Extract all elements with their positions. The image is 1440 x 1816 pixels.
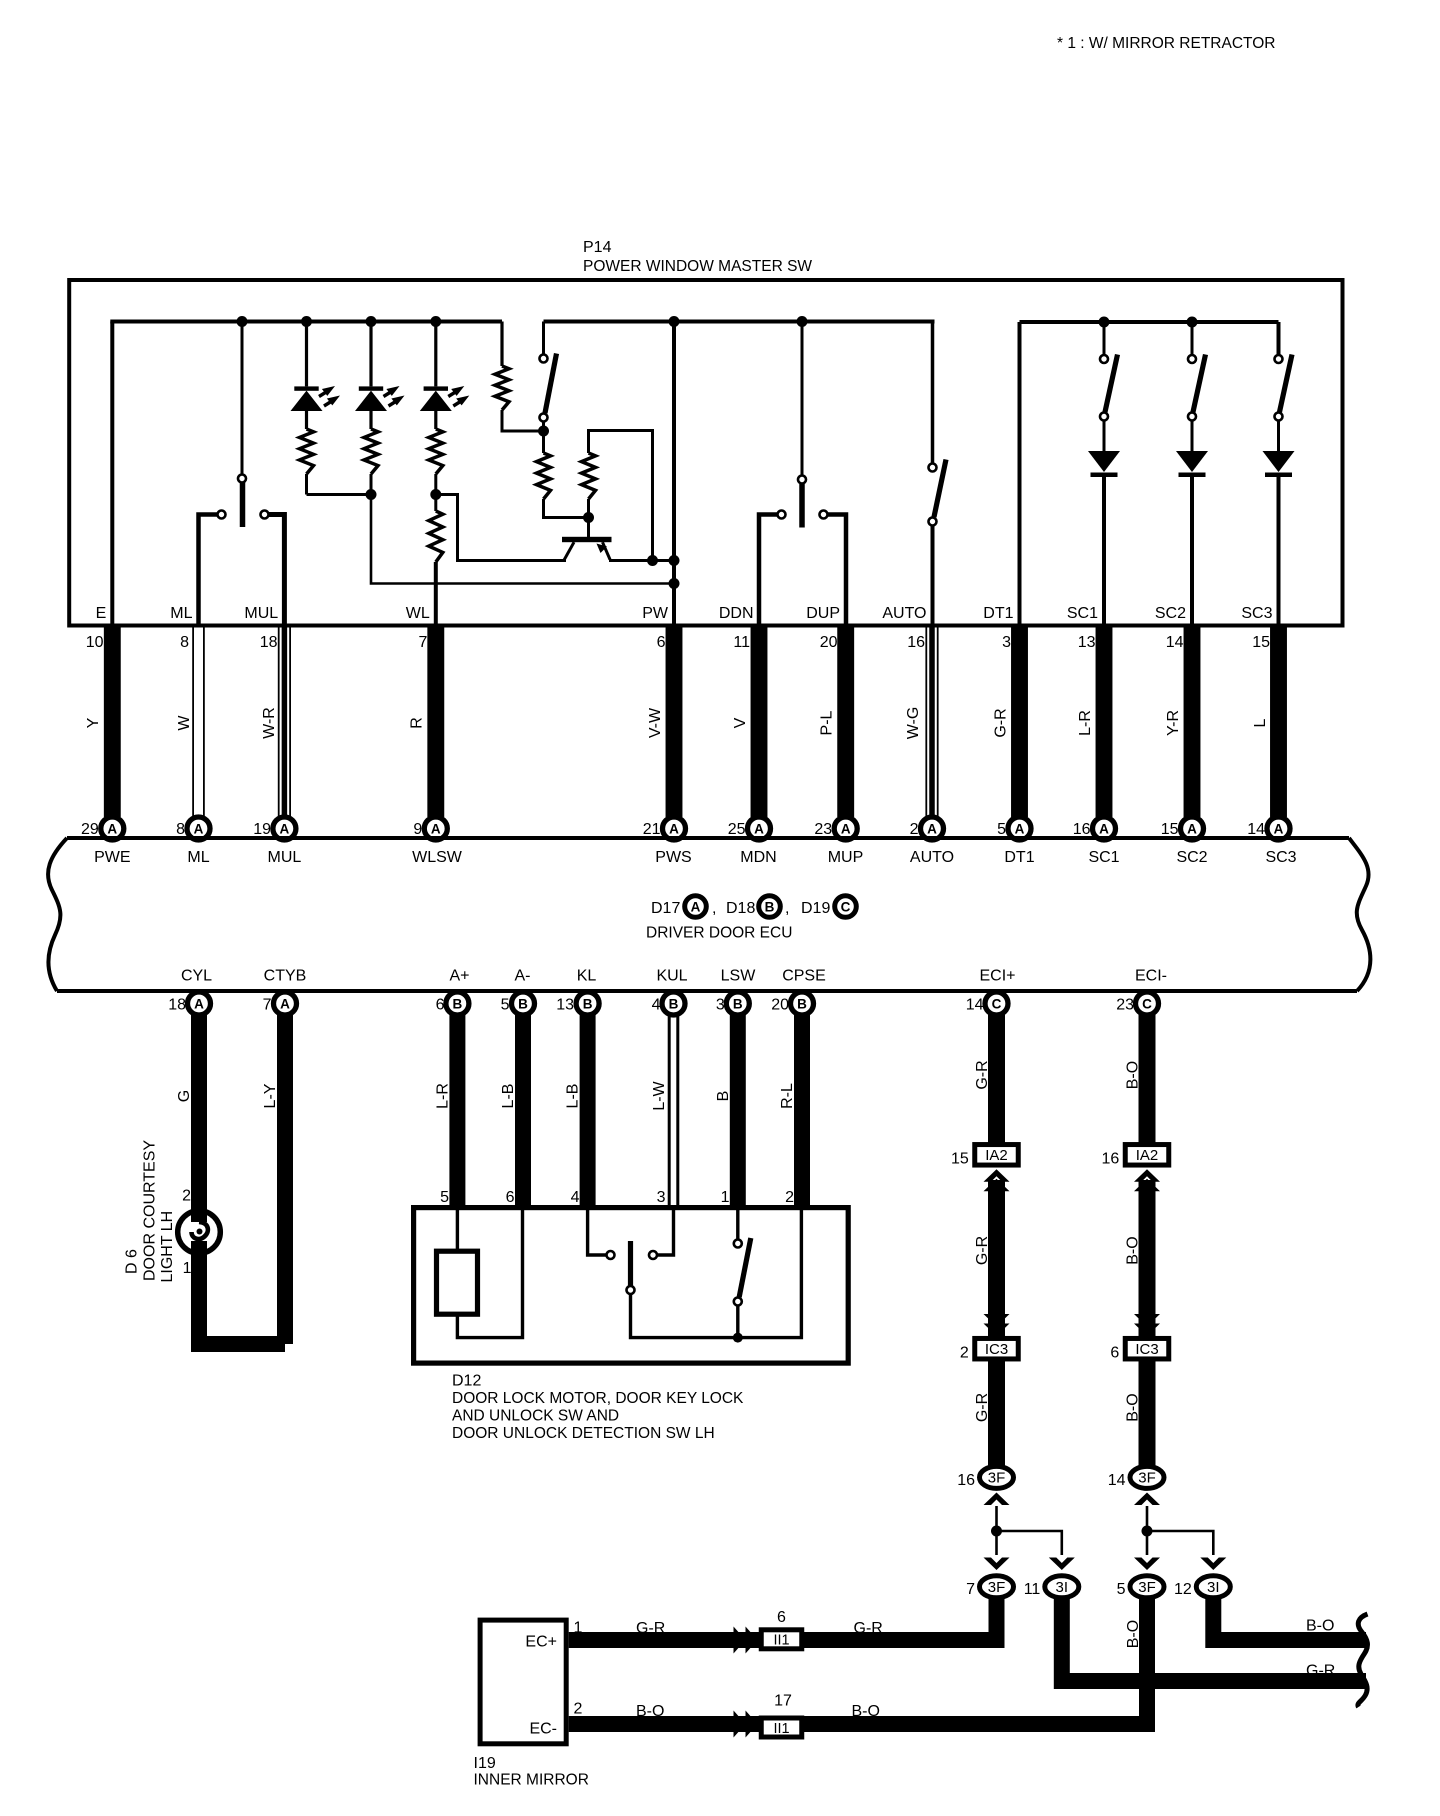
- wire harness MUP thick: [837, 624, 854, 817]
- svg-text:SC2: SC2: [1155, 605, 1186, 622]
- connector IC3 pin 2: [960, 1338, 1018, 1361]
- svg-text:DT1: DT1: [983, 605, 1013, 622]
- svg-text:CYL: CYL: [181, 968, 212, 985]
- svg-text:P14: P14: [583, 239, 612, 256]
- svg-text:ML: ML: [170, 605, 192, 622]
- node PW net junction 2: [669, 578, 680, 589]
- wire segment 2: [1139, 1180, 1156, 1340]
- svg-text:7: 7: [966, 1581, 975, 1598]
- wire LED junction to PW net: [371, 495, 674, 584]
- wire bus A (E to resistor): [110, 320, 502, 324]
- node bus junction ML: [237, 316, 248, 327]
- diode D_SC1: [1088, 451, 1120, 472]
- svg-text:B: B: [518, 996, 528, 1011]
- wire segment 2: [988, 1180, 1005, 1340]
- svg-text:2: 2: [910, 821, 919, 838]
- svg-text:B-O: B-O: [1125, 1393, 1142, 1421]
- svg-text:B: B: [453, 996, 463, 1011]
- svg-text:ECI-: ECI-: [1135, 968, 1167, 985]
- wire branch to 3I: [1147, 1531, 1213, 1555]
- wire harness LSW thick: [730, 1014, 746, 1209]
- svg-text:C: C: [1142, 996, 1152, 1011]
- connector arrow up: [1134, 1493, 1160, 1506]
- wire motor to A-: [457, 1210, 522, 1338]
- label D12 text block: [452, 1373, 744, 1443]
- switch AUTO: [929, 322, 947, 626]
- LED D2 illumination: [355, 322, 405, 430]
- wire 3F5 to inner mirror EC-: [569, 1598, 1147, 1724]
- wire harness ML hollow: [193, 628, 204, 818]
- svg-text:18: 18: [168, 997, 186, 1014]
- wire SC3 leg: [1277, 477, 1281, 625]
- wire color labels top harness: [85, 707, 1269, 740]
- svg-text:B-O: B-O: [636, 1703, 664, 1720]
- svg-text:CPSE: CPSE: [782, 968, 826, 985]
- wire 3I12 to B-O continuation: [1213, 1598, 1366, 1640]
- wire DT1 leg: [1018, 322, 1022, 625]
- svg-text:PW: PW: [642, 605, 669, 622]
- svg-text:11: 11: [1024, 1581, 1041, 1598]
- svg-text:14: 14: [1247, 821, 1265, 838]
- svg-text:G-R: G-R: [993, 708, 1010, 737]
- wire harness PWS thick: [666, 624, 683, 817]
- wire 3F7 to inner mirror EC+: [569, 1598, 997, 1640]
- wire segment 3: [1139, 1359, 1156, 1477]
- svg-text:AUTO: AUTO: [882, 605, 926, 622]
- switch ML/MUL mirror select: [218, 322, 269, 528]
- lamp D6 door courtesy light LH: [178, 1014, 221, 1253]
- switch SC2: [1188, 322, 1206, 451]
- connector arrows right EC-: [734, 1711, 758, 1738]
- svg-text:ECI+: ECI+: [979, 968, 1015, 985]
- wire color labels lower harness: [176, 1080, 796, 1110]
- component box P14 power window master switch: [69, 280, 1342, 626]
- switch SC3: [1275, 322, 1293, 451]
- svg-text:V-W: V-W: [647, 707, 664, 738]
- svg-text:A: A: [194, 821, 204, 836]
- svg-text:18: 18: [260, 634, 278, 651]
- svg-text:4: 4: [652, 997, 661, 1014]
- pin numbers connector row A: [81, 821, 1265, 838]
- svg-text:MUL: MUL: [268, 849, 302, 866]
- svg-text:A: A: [1187, 821, 1197, 836]
- svg-text:16: 16: [1102, 1151, 1120, 1168]
- svg-text:W-R: W-R: [261, 707, 278, 739]
- connector arrow down: [1134, 1558, 1160, 1571]
- svg-text:AND UNLOCK SW AND: AND UNLOCK SW AND: [452, 1408, 619, 1425]
- ECU band torn left edge: [48, 838, 67, 991]
- resistor R_LED2: [364, 429, 378, 474]
- svg-text:PWE: PWE: [94, 849, 130, 866]
- svg-text:B: B: [669, 996, 679, 1011]
- wire harness MDN thick: [751, 624, 768, 817]
- svg-text:16: 16: [957, 1472, 975, 1489]
- wire SC1 leg: [1102, 477, 1106, 625]
- svg-text:6: 6: [777, 1609, 786, 1626]
- connector pins B/C row circles: [188, 992, 1159, 1015]
- svg-text:MUP: MUP: [828, 849, 864, 866]
- svg-text:A+: A+: [449, 968, 469, 985]
- connector arrows up: [1134, 1169, 1160, 1191]
- wire A+ to motor: [456, 1210, 459, 1251]
- svg-text:IC3: IC3: [985, 1341, 1008, 1358]
- svg-text:21: 21: [643, 821, 661, 838]
- svg-text:29: 29: [81, 821, 99, 838]
- wire DUP contact to pin: [828, 515, 846, 626]
- svg-text:G-R: G-R: [974, 1236, 991, 1265]
- svg-text:A: A: [431, 821, 441, 836]
- svg-text:20: 20: [820, 634, 838, 651]
- svg-text:,: ,: [785, 900, 789, 917]
- svg-text:B: B: [765, 899, 775, 914]
- svg-text:B: B: [583, 996, 593, 1011]
- svg-text:6: 6: [506, 1189, 515, 1206]
- svg-text:6: 6: [1110, 1345, 1119, 1362]
- wire ML contact to pin: [199, 515, 218, 626]
- svg-text:G-R: G-R: [636, 1620, 665, 1637]
- svg-text:A: A: [1274, 821, 1284, 836]
- connector pins A row circles: [101, 817, 1290, 840]
- label P14 POWER WINDOW MASTER SW: [583, 239, 812, 275]
- svg-text:L-B: L-B: [500, 1084, 517, 1109]
- wire harness WLSW thick: [427, 624, 444, 817]
- svg-text:P-L: P-L: [819, 710, 836, 735]
- switch SC1: [1100, 322, 1118, 451]
- connector arrows down: [984, 1314, 1010, 1336]
- svg-text:DOOR COURTESY: DOOR COURTESY: [142, 1140, 159, 1281]
- wire harness SC1 thick: [1096, 624, 1113, 817]
- svg-text:A: A: [927, 821, 937, 836]
- svg-text:3F: 3F: [1138, 1579, 1156, 1596]
- svg-text:B-O: B-O: [852, 1703, 880, 1720]
- switch SW-PW key-off window operation: [540, 322, 557, 432]
- svg-text:5: 5: [997, 821, 1006, 838]
- svg-text:AUTO: AUTO: [910, 849, 954, 866]
- svg-text:D18: D18: [726, 900, 755, 917]
- svg-text:3I: 3I: [1207, 1579, 1220, 1596]
- connector IA2 pin 15: [951, 1145, 1018, 1168]
- wire SC2 leg: [1190, 477, 1194, 625]
- wire harness SC2 thick: [1184, 624, 1201, 817]
- connector II1 pin 6: [761, 1609, 802, 1649]
- wire common to CPSE: [738, 1210, 802, 1338]
- node bus junction SC1: [1099, 317, 1110, 328]
- resistor R3 base-emitter: [582, 431, 653, 561]
- ECU band torn right edge: [1349, 838, 1370, 991]
- svg-text:3: 3: [657, 1189, 666, 1206]
- svg-text:A: A: [194, 996, 204, 1011]
- svg-text:LIGHT LH: LIGHT LH: [159, 1211, 176, 1283]
- svg-text:B-O: B-O: [1125, 1620, 1142, 1648]
- node base junction: [583, 512, 594, 523]
- svg-text:1: 1: [721, 1189, 730, 1206]
- svg-text:WL: WL: [406, 605, 430, 622]
- svg-text:SC1: SC1: [1088, 849, 1119, 866]
- svg-text:D12: D12: [452, 1373, 481, 1390]
- svg-text:15: 15: [1161, 821, 1179, 838]
- node LED1/LED2 join: [366, 489, 377, 500]
- connector 3I pin 12: [1174, 1576, 1230, 1598]
- svg-text:6: 6: [657, 634, 666, 651]
- label I19 INNER MIRROR: [474, 1755, 589, 1789]
- node R1/SW junction: [538, 426, 549, 437]
- connector arrows right EC+: [734, 1627, 758, 1654]
- ECU bottom pin name labels: [181, 968, 1167, 985]
- wire harness KL thick: [580, 1014, 596, 1209]
- svg-text:1: 1: [183, 1260, 192, 1277]
- svg-text:B: B: [715, 1091, 732, 1102]
- connector arrow down: [984, 1558, 1010, 1571]
- wire harness DT1 thick: [1011, 624, 1028, 817]
- svg-text:L: L: [1252, 718, 1269, 727]
- svg-text:LSW: LSW: [721, 968, 757, 985]
- component box D12 door lock motor and switches: [414, 1208, 849, 1364]
- svg-text:5: 5: [1117, 1581, 1126, 1598]
- svg-text:12: 12: [1174, 1581, 1192, 1598]
- svg-text:4: 4: [571, 1189, 580, 1206]
- svg-text:16: 16: [907, 634, 925, 651]
- connector arrows up: [984, 1169, 1010, 1191]
- wire harness CTYB thick: [277, 1014, 293, 1344]
- connector 3F pin 7: [966, 1576, 1013, 1598]
- connector 3F pin 5: [1117, 1576, 1164, 1598]
- svg-text:INNER MIRROR: INNER MIRROR: [474, 1772, 589, 1789]
- svg-text:G-R: G-R: [1306, 1663, 1335, 1680]
- svg-text:DOOR UNLOCK DETECTION SW LH: DOOR UNLOCK DETECTION SW LH: [452, 1425, 715, 1442]
- svg-text:IA2: IA2: [1136, 1147, 1159, 1164]
- wire harness A- thick: [515, 1014, 531, 1209]
- wire LED3 branch to transistor emitter: [436, 495, 566, 561]
- component box I19 inner mirror: [480, 1620, 566, 1744]
- diode D_SC3: [1263, 451, 1295, 472]
- svg-text:3I: 3I: [1056, 1579, 1069, 1596]
- svg-text:13: 13: [556, 997, 574, 1014]
- connector arrow down branch: [1200, 1558, 1226, 1571]
- connector 3I pin 11: [1024, 1576, 1079, 1598]
- svg-text:23: 23: [1116, 997, 1134, 1014]
- resistor R_LED1: [300, 429, 314, 474]
- LED D1 illumination: [291, 322, 341, 430]
- svg-text:8: 8: [180, 634, 189, 651]
- svg-text:14: 14: [966, 997, 984, 1014]
- ECU band bottom edge: [57, 989, 1357, 993]
- svg-text:3F: 3F: [988, 1579, 1006, 1596]
- node bus junction LED2: [366, 316, 377, 327]
- svg-text:9: 9: [413, 821, 422, 838]
- connector IA2 pin 16: [1102, 1145, 1169, 1168]
- node bus junction DUP: [797, 316, 808, 327]
- diode D_SC2: [1176, 451, 1208, 472]
- svg-text:G-R: G-R: [974, 1393, 991, 1422]
- svg-text:Y-R: Y-R: [1165, 710, 1182, 736]
- svg-text:D17: D17: [651, 900, 680, 917]
- svg-text:W: W: [176, 715, 193, 731]
- svg-text:A: A: [280, 996, 290, 1011]
- svg-text:A: A: [754, 821, 764, 836]
- svg-text:7: 7: [263, 997, 272, 1014]
- wire harness KUL hollow: [669, 1014, 678, 1209]
- label D17 D18 D19 DRIVER DOOR ECU: [646, 896, 856, 942]
- wire bus B (switch to AUTO): [544, 320, 935, 324]
- svg-text:2: 2: [574, 1701, 583, 1718]
- svg-text:13: 13: [1078, 634, 1096, 651]
- svg-text:L-B: L-B: [565, 1084, 582, 1109]
- wire branch to 3I: [997, 1531, 1062, 1555]
- svg-text:DT1: DT1: [1004, 849, 1034, 866]
- wire DDN contact to pin: [759, 515, 777, 626]
- svg-text:G-R: G-R: [974, 1060, 991, 1089]
- svg-text:B-O: B-O: [1306, 1618, 1334, 1635]
- svg-text:D19: D19: [801, 900, 830, 917]
- wire thin to junction: [1146, 1506, 1149, 1555]
- LED D3 illumination: [420, 322, 470, 430]
- svg-text:B-O: B-O: [1125, 1061, 1142, 1089]
- switch DDN/DUP driver window: [778, 322, 828, 528]
- break symbol wavy cut line: [1358, 1614, 1368, 1707]
- motor M door lock: [437, 1251, 478, 1314]
- connector arrow down branch: [1049, 1558, 1075, 1571]
- svg-text:IA2: IA2: [985, 1147, 1008, 1164]
- svg-text:A: A: [841, 821, 851, 836]
- svg-text:A: A: [1099, 821, 1109, 836]
- svg-text:II1: II1: [773, 1721, 789, 1737]
- svg-text:V: V: [732, 717, 749, 728]
- svg-text:EC-: EC-: [529, 1721, 557, 1738]
- svg-text:W-G: W-G: [905, 707, 922, 740]
- svg-text:PWS: PWS: [655, 849, 691, 866]
- node emitter/R3 junction: [647, 555, 658, 566]
- node bus junction LED1: [301, 316, 312, 327]
- svg-text:SC3: SC3: [1241, 605, 1272, 622]
- svg-text:19: 19: [253, 821, 271, 838]
- svg-text:SC1: SC1: [1067, 605, 1098, 622]
- svg-text:3F: 3F: [988, 1470, 1006, 1487]
- svg-text:G: G: [176, 1090, 193, 1102]
- connector IC3 pin 6: [1110, 1338, 1168, 1361]
- resistor R_LED3: [429, 429, 443, 474]
- svg-text:C: C: [841, 899, 851, 914]
- node bus junction SC2: [1187, 317, 1198, 328]
- svg-text:R: R: [409, 717, 426, 729]
- switch door unlock detection SW: [734, 1210, 751, 1338]
- node branch junction: [1142, 1526, 1153, 1537]
- svg-text:14: 14: [1108, 1472, 1126, 1489]
- wire ECI+ segment 1: [988, 1014, 1005, 1146]
- svg-text:5: 5: [440, 1189, 449, 1206]
- node bus junction LED3: [430, 316, 441, 327]
- svg-text:20: 20: [771, 997, 789, 1014]
- svg-text:L-R: L-R: [434, 1083, 451, 1109]
- label D6 DOOR COURTESY LIGHT LH vertical: [124, 1140, 176, 1283]
- wire LED1 bottom to LED2: [305, 474, 308, 495]
- node PW net junction 1: [669, 555, 680, 566]
- svg-text:IC3: IC3: [1135, 1341, 1158, 1358]
- svg-text:3: 3: [716, 997, 725, 1014]
- pin numbers below P14: [86, 634, 1270, 651]
- resistor R1 pull-up: [495, 322, 544, 432]
- wire PW leg: [672, 322, 676, 626]
- svg-text:5: 5: [501, 997, 510, 1014]
- svg-text:MDN: MDN: [740, 849, 776, 866]
- svg-text:B: B: [797, 996, 807, 1011]
- svg-text:14: 14: [1166, 634, 1184, 651]
- svg-text:G-R: G-R: [854, 1620, 883, 1637]
- wire harness AUTO hollow with core: [926, 624, 937, 817]
- ECU band top edge: [67, 836, 1349, 840]
- svg-text:A: A: [691, 899, 701, 914]
- wire thin to junction: [995, 1506, 998, 1555]
- svg-text:B-O: B-O: [1125, 1236, 1142, 1264]
- transistor Q1 PNP: [562, 518, 612, 561]
- connector II1 pin 17: [761, 1693, 802, 1738]
- ECU top pin name labels: [94, 849, 1297, 866]
- connector arrows down: [1134, 1314, 1160, 1336]
- svg-text:WLSW: WLSW: [412, 849, 463, 866]
- svg-text:* 1 : W/ MIRROR RETRACTOR: * 1 : W/ MIRROR RETRACTOR: [1057, 35, 1275, 52]
- switch key lock/unlock SW: [588, 1210, 738, 1338]
- connector 3F pin 14: [1108, 1466, 1164, 1489]
- wire E leg: [110, 322, 114, 626]
- resistor R_WL second: [429, 511, 443, 562]
- wire 3I11 to G-R continuation: [1062, 1598, 1366, 1681]
- svg-text:CTYB: CTYB: [264, 968, 307, 985]
- svg-text:SC2: SC2: [1176, 849, 1207, 866]
- svg-text:II1: II1: [773, 1633, 789, 1649]
- wire segment 3: [988, 1359, 1005, 1477]
- svg-text:10: 10: [86, 634, 104, 651]
- pin numbers connector row B/C: [168, 997, 1134, 1014]
- svg-text:A: A: [1015, 821, 1025, 836]
- wire bus SC (DT1 to SC3): [1020, 320, 1279, 324]
- wire D6 to CTYB return: [199, 1241, 285, 1344]
- svg-text:ML: ML: [187, 849, 209, 866]
- resistor R2 base feed: [537, 431, 589, 518]
- node LED3 join: [430, 489, 441, 500]
- svg-text:3F: 3F: [1138, 1470, 1156, 1487]
- wire harness MUL hollow with core: [279, 624, 290, 817]
- pin name labels inside P14: [96, 605, 1273, 622]
- svg-text:7: 7: [418, 634, 427, 651]
- svg-text:A: A: [669, 821, 679, 836]
- wire harness PWE thick: [104, 624, 121, 817]
- svg-text:11: 11: [733, 634, 750, 651]
- svg-text:16: 16: [1073, 821, 1091, 838]
- svg-text:DRIVER DOOR ECU: DRIVER DOOR ECU: [646, 925, 792, 942]
- svg-text:3: 3: [1002, 634, 1011, 651]
- svg-text:DUP: DUP: [806, 605, 840, 622]
- svg-text:A: A: [107, 821, 117, 836]
- wire LED2 bottom: [370, 474, 373, 495]
- svg-text:8: 8: [176, 821, 185, 838]
- svg-text:2: 2: [960, 1345, 969, 1362]
- svg-text:MUL: MUL: [244, 605, 278, 622]
- svg-text:1: 1: [574, 1620, 583, 1637]
- svg-text:KUL: KUL: [656, 968, 687, 985]
- svg-text:L-W: L-W: [651, 1080, 668, 1110]
- svg-text:DOOR LOCK MOTOR, DOOR KEY LOCK: DOOR LOCK MOTOR, DOOR KEY LOCK: [452, 1390, 744, 1407]
- svg-text:KL: KL: [577, 968, 597, 985]
- svg-text:C: C: [992, 996, 1002, 1011]
- svg-text:23: 23: [814, 821, 832, 838]
- svg-text:R-L: R-L: [779, 1083, 796, 1109]
- wire harness A+ thick: [449, 1014, 465, 1209]
- svg-text:SC3: SC3: [1265, 849, 1296, 866]
- svg-text:15: 15: [1252, 634, 1270, 651]
- svg-text:E: E: [96, 605, 107, 622]
- wire ECI- segment 1: [1139, 1014, 1156, 1146]
- svg-text:L-Y: L-Y: [262, 1083, 279, 1108]
- svg-text:D 6: D 6: [124, 1249, 141, 1274]
